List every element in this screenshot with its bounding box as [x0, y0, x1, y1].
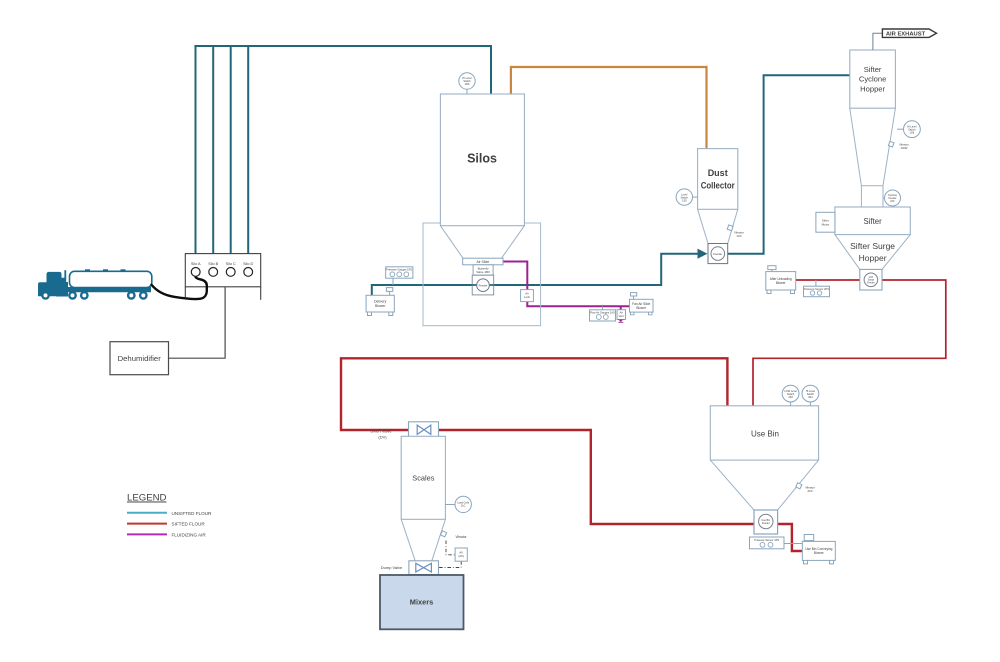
flow air gauges 2AG [590, 306, 616, 321]
wire: divert valve to use bin feeder [438, 430, 754, 524]
after unloading blower [766, 266, 796, 294]
dust collector feeder [708, 244, 728, 264]
node Silo D inlet [243, 262, 253, 276]
legend unsifted flour sample line [127, 512, 167, 514]
air slide [463, 258, 503, 265]
wire: use bin overflow return from divert valve [341, 358, 727, 430]
level switch on silos (HI Level Switch) [459, 73, 475, 94]
chassis under tank [66, 287, 151, 292]
svg-text:Motor: Motor [822, 222, 830, 226]
legend sifted flour sample line [127, 523, 167, 525]
vibrator on use bin cone [796, 483, 815, 493]
delivery blower [366, 288, 394, 316]
node Silo B inlet [208, 262, 218, 276]
WIRES-MAGENTA (fluidizing air) [503, 262, 630, 322]
use bin feeder [754, 510, 778, 534]
surge hopper feeder [860, 269, 882, 290]
vibrator on dust collector cone [727, 225, 744, 238]
cab [38, 272, 66, 296]
wire: intake panel to dehumidifier [169, 287, 226, 358]
silo feeder [472, 275, 494, 295]
svg-text:Pressure Gauges 1PG: Pressure Gauges 1PG [386, 267, 412, 271]
cyclone cone [850, 108, 896, 207]
svg-text:Pressure Sensor 4PS: Pressure Sensor 4PS [754, 538, 779, 542]
svg-text:Silo A: Silo A [191, 262, 201, 266]
svg-text:Feeder: Feeder [762, 522, 770, 525]
wire: unsifted flour pipe Silo A riser [195, 46, 197, 254]
svg-text:Hopper: Hopper [859, 253, 887, 263]
svg-text:UNSIFTED FLOUR: UNSIFTED FLOUR [172, 511, 212, 516]
svg-text:4S4: 4S4 [808, 396, 813, 399]
sifter motor [816, 212, 835, 232]
svg-text:Vibrator: Vibrator [455, 535, 467, 539]
wire: fluidizing air from fan blower to air slide [503, 262, 630, 307]
wire: dust collector feeder to sifter cyclone hopper [728, 75, 850, 253]
svg-text:Blower: Blower [375, 304, 386, 308]
vibrator on scales cone [441, 531, 468, 539]
svg-text:Blower: Blower [776, 281, 787, 285]
svg-text:Feeder: Feeder [479, 283, 488, 287]
legend fluidizing air sample line [127, 533, 167, 535]
svg-text:Sifter: Sifter [863, 217, 882, 226]
svg-text:4XX: 4XX [807, 489, 812, 493]
sifter [835, 207, 910, 235]
svg-text:Use Bin: Use Bin [751, 430, 779, 439]
divert valve [370, 422, 438, 440]
svg-text:Dust: Dust [708, 168, 728, 178]
svg-text:Vent: Vent [619, 314, 624, 318]
svg-text:Pressure Sensor 2PS: Pressure Sensor 2PS [804, 287, 829, 291]
svg-text:Valve 1BV: Valve 1BV [476, 270, 490, 274]
butterfly valve 1BV [473, 265, 493, 275]
svg-text:Collector: Collector [701, 181, 735, 191]
svg-text:4S3: 4S3 [788, 396, 793, 399]
level switch on dust collector [676, 189, 698, 205]
wire: after unloading blower to surge hopper feeder [796, 279, 860, 281]
wire: unsifted flour pipe Silo C riser [230, 46, 232, 254]
svg-text:LEGEND: LEGEND [127, 493, 167, 504]
svg-text:(DV): (DV) [378, 434, 387, 439]
wire: unsifted flour trunk to silos [194, 46, 491, 94]
use bin [710, 406, 818, 460]
svg-text:Cyclone: Cyclone [859, 75, 886, 84]
fan air slide blower [630, 293, 654, 315]
WIRES-TEAL [194, 46, 849, 296]
svg-text:Flow Air Gauges 2AG: Flow Air Gauges 2AG [590, 310, 615, 314]
vibrator on cyclone cone [888, 141, 909, 150]
svg-text:SIFTED FLOUR: SIFTED FLOUR [172, 522, 206, 527]
WIRES-RED (sifted flour) [753, 280, 946, 406]
svg-text:1XX: 1XX [736, 234, 741, 238]
svg-text:FLUIDIZING AIR: FLUIDIZING AIR [172, 532, 207, 537]
svg-text:1RS: 1RS [465, 83, 470, 86]
dust collector [698, 149, 738, 210]
manholes on tank [85, 269, 90, 271]
sifter surge hopper [835, 235, 910, 270]
scales [401, 436, 445, 519]
low level switch on use bin [782, 385, 799, 406]
node Silo C inlet [226, 262, 236, 276]
svg-text:Silo B: Silo B [208, 262, 218, 266]
dehumidifier [110, 342, 169, 375]
use bin conveying blower [802, 535, 835, 564]
pressure gauges 1PG [386, 267, 413, 285]
intake panel (silo fill connections) [185, 254, 260, 300]
wire: pressure sensor 4PS to conveying blower [784, 543, 802, 545]
svg-text:Lock: Lock [524, 295, 531, 299]
dump valve [381, 561, 439, 575]
node Silo A inlet [191, 262, 201, 276]
svg-text:1WW: 1WW [901, 146, 908, 150]
svg-text:1FF: 1FF [890, 200, 895, 203]
arrowhead into dust collector feeder [698, 249, 708, 259]
svg-text:Hopper: Hopper [860, 84, 885, 93]
tank [70, 271, 152, 287]
svg-text:Blower: Blower [636, 306, 647, 310]
scales discharge cone [401, 519, 445, 561]
pressure sensor 4PS [750, 537, 785, 549]
wire: surge hopper feeder to use bin [753, 280, 946, 406]
pressure sensor 2PS [804, 280, 830, 297]
air valve box AV [455, 548, 467, 561]
svg-text:Feeder: Feeder [867, 281, 875, 284]
svg-text:Silos: Silos [467, 152, 497, 166]
equipment enclosure around silo discharge [423, 223, 541, 326]
wire: unsifted flour pipe Silo B riser [212, 46, 214, 254]
svg-text:Blower: Blower [814, 551, 825, 555]
legend [127, 493, 212, 538]
svg-text:Feeder: Feeder [713, 252, 722, 256]
svg-text:1S6: 1S6 [910, 131, 915, 134]
wire: use bin feeder to conveying blower [778, 524, 803, 551]
svg-text:Scales: Scales [412, 474, 434, 483]
svg-text:Mixers: Mixers [410, 598, 433, 607]
svg-text:Air Slide: Air Slide [476, 260, 489, 264]
cab lower body [56, 282, 68, 297]
svg-text:Silo C: Silo C [226, 262, 236, 266]
svg-text:Silo D: Silo D [243, 262, 253, 266]
exhaust stack [64, 270, 66, 287]
hi level switch on use bin [802, 385, 819, 406]
use bin discharge cone [710, 460, 818, 510]
silos bin [440, 94, 524, 226]
sifter cyclone hopper [850, 50, 896, 108]
hose from truck to Silo A inlet [152, 276, 207, 299]
wire: orange silos vent to dust collector [511, 67, 707, 149]
svg-text:Sifter: Sifter [864, 65, 882, 74]
svg-text:AIR EXHAUST: AIR EXHAUST [886, 31, 926, 37]
svg-text:Dump Valve: Dump Valve [381, 565, 403, 570]
hi level switch on cyclone [897, 121, 920, 138]
control line (dash-dot) vibrator to dump valve [439, 541, 462, 568]
svg-text:Divert Valve: Divert Valve [370, 428, 392, 433]
svg-text:1S5: 1S5 [682, 199, 687, 202]
svg-text:(AV): (AV) [459, 554, 464, 558]
wire: unsifted flour pipe Silo D riser [247, 46, 249, 254]
svg-text:Delivery: Delivery [374, 300, 387, 304]
wire: fluidizing air valve stub [620, 306, 622, 321]
svg-text:Sifter Surge: Sifter Surge [850, 241, 895, 251]
svg-text:3LC: 3LC [461, 505, 466, 508]
wheels [41, 291, 148, 300]
load cells indicator [445, 496, 471, 512]
truck: flour delivery tanker [38, 269, 152, 300]
svg-text:Dehumidifier: Dehumidifier [118, 354, 162, 363]
cyclone feeder [883, 190, 901, 206]
mixers [380, 575, 464, 629]
air lock (on fluidizing line) [521, 290, 534, 302]
wire: delivery blower line to dust collector feeder [372, 254, 699, 296]
dust collector discharge cone [698, 209, 738, 243]
valve 2AV on fluidizing line [617, 310, 626, 323]
silo discharge hopper [440, 226, 524, 259]
air exhaust banner [873, 29, 937, 50]
